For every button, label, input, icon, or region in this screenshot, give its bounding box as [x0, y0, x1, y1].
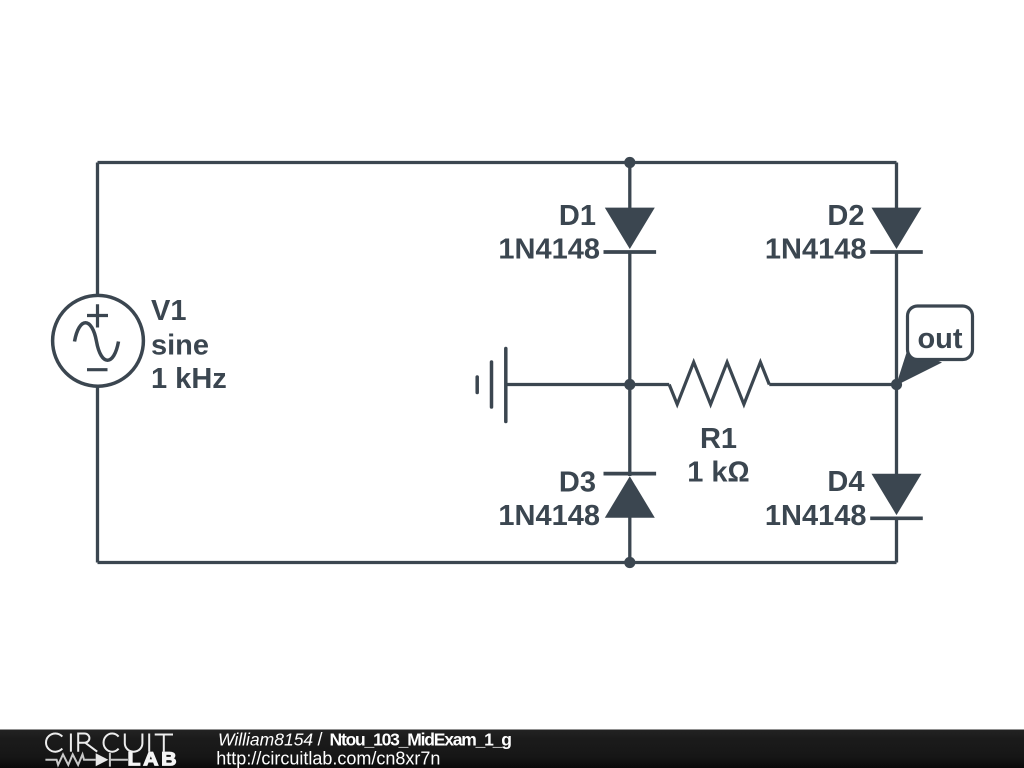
- diode D2: [870, 208, 923, 252]
- diode D3: [604, 474, 657, 518]
- node junction out (R1/D2/D4): [891, 379, 902, 390]
- node junction middle (ground/R1/D1/D3): [624, 379, 635, 390]
- svg-text:Ntou_103_MidExam_1_g: Ntou_103_MidExam_1_g: [330, 730, 512, 750]
- svg-text:1N4148: 1N4148: [765, 500, 867, 532]
- wire D2 branch upper: [895, 163, 898, 211]
- wire bottom rail: [98, 561, 897, 564]
- wire D1 branch upper: [628, 163, 631, 211]
- footer bar: [0, 730, 1024, 768]
- logo LAB wordmark: [129, 752, 176, 765]
- wire D3 branch lower: [628, 518, 631, 563]
- ground symbol: [477, 349, 506, 422]
- wire node B to resistor: [630, 383, 669, 386]
- svg-text:1 kΩ: 1 kΩ: [687, 457, 750, 489]
- wire D2 branch lower: [895, 252, 898, 385]
- svg-text:D1: D1: [559, 200, 596, 232]
- diode D1: [604, 208, 657, 252]
- logo CIRCUIT wordmark: [46, 733, 173, 751]
- svg-text:D3: D3: [559, 467, 596, 499]
- node junction top (D1/top rail): [624, 157, 635, 168]
- net flag out box: [908, 306, 973, 360]
- svg-text:http://circuitlab.com/cn8xr7n: http://circuitlab.com/cn8xr7n: [216, 749, 440, 768]
- voltage source V1: [53, 295, 144, 386]
- svg-text:/: /: [318, 730, 323, 750]
- wire D4 branch upper: [895, 385, 898, 476]
- wire ground to node B: [506, 383, 630, 386]
- svg-text:D4: D4: [827, 466, 864, 498]
- svg-text:William8154: William8154: [218, 730, 313, 750]
- wire left rail upper: [96, 163, 99, 296]
- wire D4 branch lower: [895, 518, 898, 562]
- svg-text:1 kHz: 1 kHz: [151, 363, 227, 395]
- resistor R1: [669, 362, 769, 404]
- node junction bottom (D3/bottom rail): [624, 557, 635, 568]
- wire D1 branch lower: [628, 252, 631, 385]
- svg-text:D2: D2: [827, 200, 864, 232]
- svg-text:R1: R1: [700, 423, 737, 455]
- svg-text:V1: V1: [151, 295, 186, 327]
- net flag out pointer: [896, 348, 942, 386]
- diode D4: [870, 474, 923, 519]
- svg-text:out: out: [917, 323, 962, 355]
- wire resistor to node OUT: [769, 383, 896, 386]
- svg-text:1N4148: 1N4148: [498, 234, 600, 266]
- svg-text:1N4148: 1N4148: [498, 500, 600, 532]
- svg-text:sine: sine: [151, 330, 209, 362]
- wire D3 branch upper: [628, 385, 631, 477]
- wire left rail lower: [96, 386, 99, 563]
- logo circuit symbol: [45, 753, 128, 767]
- svg-text:1N4148: 1N4148: [765, 234, 867, 266]
- wire top rail: [98, 161, 897, 164]
